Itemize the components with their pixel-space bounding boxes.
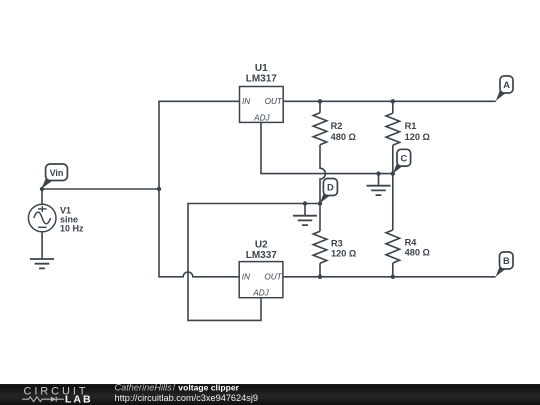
wire U1 IN pin to vertical bus — [159, 101, 240, 189]
resistor R3 labels — [331, 238, 356, 258]
resistor R2 labels — [331, 121, 356, 142]
svg-text:LAB: LAB — [65, 393, 93, 405]
U2 name labels — [246, 240, 278, 261]
wire V1 bottom to ground — [41, 232, 43, 259]
regulator U2 LM337 box — [239, 262, 283, 298]
voltage source V1 — [28, 204, 56, 232]
net flag D — [320, 179, 338, 204]
resistor R4 labels — [405, 238, 430, 258]
wire R2 bottom lead with hop over ADJ wire down to node D — [320, 145, 325, 204]
wire node C down to R4 top lead — [392, 174, 394, 230]
net flag A — [496, 76, 513, 101]
junction vertical bus / Vin wire — [157, 187, 161, 191]
wire R3 bottom lead to bottom rail — [319, 263, 321, 277]
wire V1 top to Vin node — [41, 189, 43, 205]
CircuitLab logo wordmark LAB — [65, 393, 93, 405]
svg-text:CatherineHills: CatherineHills — [115, 383, 173, 393]
svg-text:D: D — [327, 183, 334, 193]
wire U2 ADJ loop down left and up to node D — [188, 204, 320, 321]
wire bottom rail U2 OUT to node B corner — [283, 276, 496, 278]
svg-text:ADJ: ADJ — [253, 113, 270, 122]
U2 pin labels — [242, 273, 283, 298]
footer title text — [115, 383, 240, 393]
resistor R3 — [313, 231, 327, 263]
svg-text:B: B — [503, 256, 510, 266]
svg-text:IN: IN — [242, 273, 250, 282]
svg-text:LM317: LM317 — [246, 74, 278, 85]
regulator U1 LM317 box — [240, 87, 284, 123]
CircuitLab logo circuit glyph (resistor + diode) — [22, 397, 64, 402]
junction node C — [391, 171, 395, 175]
V1 value labels — [60, 206, 84, 234]
wire vertical bus down to U2 IN with hop over x=188 — [159, 189, 240, 277]
svg-text:120 Ω: 120 Ω — [405, 132, 430, 142]
net flag B — [496, 252, 513, 277]
svg-text:U1: U1 — [255, 63, 268, 74]
resistor R4 — [386, 230, 400, 263]
svg-text:C: C — [401, 153, 408, 163]
svg-text:OUT: OUT — [264, 273, 282, 282]
wire node D to R3 top lead — [319, 204, 321, 232]
junction ground stub D rail — [303, 201, 307, 205]
junction R1 top — [391, 99, 395, 103]
svg-text:Vin: Vin — [50, 168, 64, 178]
svg-text:ADJ: ADJ — [252, 289, 269, 298]
junction R3 bottom — [318, 275, 322, 279]
junction node D — [318, 201, 322, 205]
wire R4 bottom lead to bottom rail — [392, 263, 394, 277]
junction node Vin — [40, 187, 44, 191]
footer url text — [115, 393, 259, 403]
svg-text:480 Ω: 480 Ω — [331, 132, 356, 142]
resistor R2 — [313, 113, 327, 145]
ground at node D rail — [293, 216, 317, 225]
svg-text:LM337: LM337 — [246, 250, 278, 261]
wire R1 bottom lead to node C — [392, 145, 394, 173]
svg-text:R3: R3 — [331, 238, 343, 248]
wire R2 top lead from top rail — [319, 101, 321, 113]
svg-text:U2: U2 — [255, 240, 268, 251]
svg-text:http://circuitlab.com/c3xe9476: http://circuitlab.com/c3xe947624sj9 — [115, 393, 259, 403]
svg-text:R4: R4 — [405, 238, 418, 248]
wire ground stub at node C rail — [378, 174, 380, 186]
svg-text:480 Ω: 480 Ω — [405, 248, 430, 258]
junction ground stub C rail — [376, 171, 380, 175]
svg-text:voltage clipper: voltage clipper — [178, 383, 239, 393]
ground below V1 — [30, 259, 54, 268]
junction R2 top — [318, 99, 322, 103]
wire R1 top lead from top rail — [392, 101, 394, 113]
wire U1 ADJ down and right to node C — [261, 123, 393, 174]
net flag C — [393, 149, 411, 173]
svg-text:A: A — [503, 80, 510, 90]
wire Vin node to vertical bus — [42, 188, 159, 190]
svg-text:120 Ω: 120 Ω — [331, 248, 356, 258]
svg-text:R2: R2 — [331, 121, 343, 131]
footer bar — [0, 384, 540, 405]
junction R4 bottom — [391, 275, 395, 279]
resistor R1 — [386, 113, 400, 145]
U1 name labels — [246, 63, 278, 84]
wire ground stub at node D rail — [304, 204, 306, 216]
svg-text:10 Hz: 10 Hz — [60, 224, 84, 234]
svg-text:R1: R1 — [405, 121, 417, 131]
ground at node C rail — [367, 186, 391, 195]
svg-text:IN: IN — [242, 97, 250, 106]
resistor R1 labels — [405, 121, 430, 142]
svg-text:OUT: OUT — [265, 97, 283, 106]
wire U1 OUT to node A corner — [283, 100, 496, 102]
CircuitLab logo wordmark CIRCUIT — [24, 385, 89, 397]
U1 pin labels — [242, 97, 283, 122]
net flag Vin — [41, 164, 67, 189]
